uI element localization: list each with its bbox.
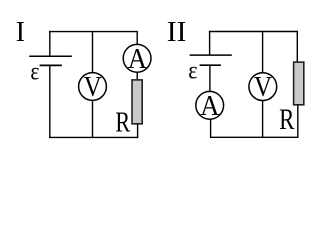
wire battery to ammeter circuit II (209, 65, 211, 91)
wire resistor bottom lead circuit II (297, 105, 299, 138)
resistor R1 body circuit I (132, 80, 142, 124)
resistor R2 body circuit II (294, 62, 304, 105)
svg-text:ε: ε (188, 58, 197, 85)
wire voltmeter branch upper circuit II (262, 32, 264, 73)
battery ε short plate (negative) circuit I (40, 64, 62, 66)
battery ε long plate (positive) circuit II (190, 54, 232, 56)
ammeter A1 circle circuit I (123, 44, 151, 72)
battery ε long plate (positive) circuit I (29, 55, 72, 57)
svg-text:V: V (84, 72, 102, 103)
svg-text:I: I (16, 16, 25, 48)
wire voltmeter branch upper circuit I (92, 32, 94, 73)
svg-text:ε: ε (30, 59, 39, 86)
svg-text:R: R (279, 104, 295, 136)
wire resistor top lead circuit II (296, 31, 298, 62)
wire resistor bottom lead circuit I (137, 124, 139, 138)
wire ammeter bottom lead circuit II (210, 119, 212, 138)
wire top rail circuit II (209, 31, 297, 33)
wire voltmeter branch lower circuit II (262, 101, 264, 138)
voltmeter V1 circle circuit I (79, 73, 107, 101)
svg-text:A: A (200, 90, 219, 122)
wire bottom rail circuit I (49, 136, 138, 138)
ammeter A2 circle circuit II (196, 91, 224, 119)
battery ε short plate (negative) circuit II (200, 64, 221, 66)
wire ammeter top lead circuit I (136, 31, 138, 45)
svg-text:R: R (115, 108, 130, 139)
voltmeter V2 circle circuit II (249, 73, 277, 101)
svg-text:A: A (128, 43, 147, 75)
svg-text:V: V (254, 72, 272, 103)
wire battery top lead circuit I (49, 31, 51, 56)
wire top rail circuit I (49, 31, 137, 33)
wire ammeter to resistor circuit I (136, 72, 138, 80)
wire voltmeter branch lower circuit I (92, 101, 94, 139)
svg-text:II: II (167, 16, 187, 48)
wire battery bottom lead / left rail circuit I (49, 65, 51, 138)
wire bottom rail circuit II (211, 136, 299, 138)
wire battery top lead circuit II (209, 31, 211, 55)
